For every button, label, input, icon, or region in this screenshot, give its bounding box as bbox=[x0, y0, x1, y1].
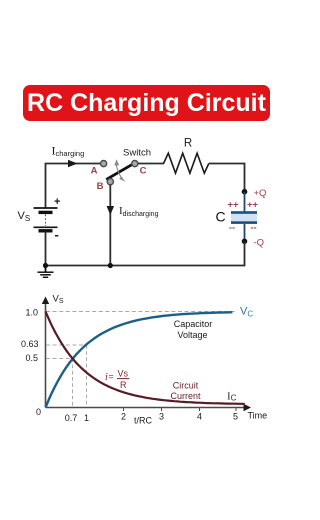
switch contact C bbox=[132, 161, 138, 167]
svg-text:B: B bbox=[97, 181, 104, 192]
wire: resistor to node +Q bbox=[209, 164, 245, 190]
capacitor voltage curve VC bbox=[46, 312, 233, 407]
svg-text:Voltage: Voltage bbox=[177, 330, 207, 340]
switch toggle motion arrow bbox=[114, 159, 125, 181]
svg-text:0.5: 0.5 bbox=[25, 353, 38, 363]
svg-text:1.0: 1.0 bbox=[25, 308, 38, 318]
resistor R bbox=[164, 153, 209, 173]
wire: contact C to resistor R bbox=[138, 163, 164, 165]
ground bbox=[38, 266, 54, 278]
x-axis tick at 2 bbox=[123, 408, 125, 412]
title banner bbox=[23, 85, 270, 121]
capacitor C1 bbox=[231, 192, 257, 242]
svg-text:Capacitor: Capacitor bbox=[174, 319, 213, 329]
graph x-axis bbox=[46, 404, 252, 411]
x-axis tick at 5 bbox=[235, 408, 237, 412]
svg-text:0.63: 0.63 bbox=[21, 339, 39, 349]
svg-text:--: -- bbox=[250, 223, 256, 234]
battery VS bbox=[34, 196, 61, 242]
svg-text:R: R bbox=[120, 380, 127, 390]
svg-text:0.7: 0.7 bbox=[65, 413, 78, 423]
circuit current curve IC bbox=[46, 312, 245, 404]
switch contact A bbox=[101, 161, 107, 167]
svg-text:+: + bbox=[54, 196, 60, 208]
switch contact B bbox=[107, 179, 113, 185]
dashed line at 0.5 bbox=[46, 358, 73, 360]
x-axis tick at 4 bbox=[199, 408, 201, 412]
dashed vertical at 1 bbox=[86, 345, 88, 407]
wire: capacitor to bottom rail bbox=[46, 241, 245, 265]
wire: battery negative to ground node bbox=[45, 232, 47, 266]
svg-text:R: R bbox=[184, 138, 192, 150]
svg-text:--: -- bbox=[229, 223, 235, 234]
svg-text:2: 2 bbox=[121, 412, 126, 422]
svg-text:Vs: Vs bbox=[118, 369, 129, 379]
node +Q junction bbox=[242, 189, 248, 195]
charging current arrow bbox=[68, 160, 78, 168]
svg-text:RC Charging Circuit: RC Charging Circuit bbox=[27, 89, 267, 117]
svg-text:-Q: -Q bbox=[254, 238, 265, 249]
svg-text:A: A bbox=[91, 166, 98, 177]
svg-text:++: ++ bbox=[227, 200, 239, 211]
svg-text:++: ++ bbox=[247, 200, 259, 211]
svg-text:Time: Time bbox=[248, 411, 268, 421]
svg-text:Circuit: Circuit bbox=[173, 381, 199, 391]
svg-text:=: = bbox=[109, 372, 114, 382]
graph y-axis bbox=[42, 297, 49, 408]
wire: switch contact B to bottom rail bbox=[109, 185, 111, 266]
dashed vertical at 0.7 bbox=[72, 359, 74, 408]
discharging current arrow bbox=[107, 206, 115, 215]
junction: B branch to bottom rail bbox=[108, 263, 113, 268]
svg-text:5: 5 bbox=[233, 412, 238, 422]
node -Q junction bbox=[242, 239, 248, 245]
svg-text:-: - bbox=[55, 227, 59, 242]
dashed line at 0.63 bbox=[46, 344, 87, 346]
label i = VS/R bbox=[105, 369, 130, 391]
svg-text:C: C bbox=[216, 209, 226, 225]
svg-text:3: 3 bbox=[159, 412, 164, 422]
switch lever B-C bbox=[106, 162, 136, 179]
dashed line at 1.0 bbox=[46, 311, 236, 313]
svg-text:C: C bbox=[140, 166, 147, 177]
svg-text:Current: Current bbox=[170, 391, 201, 401]
wire: battery positive to switch contact A bbox=[46, 164, 101, 209]
svg-text:0: 0 bbox=[36, 407, 41, 417]
svg-text:4: 4 bbox=[197, 412, 202, 422]
svg-text:1: 1 bbox=[84, 413, 89, 423]
svg-text:+Q: +Q bbox=[254, 188, 267, 199]
junction: ground node bbox=[43, 263, 48, 268]
x-axis tick at 3 bbox=[161, 408, 163, 412]
svg-text:t/RC: t/RC bbox=[134, 416, 153, 426]
svg-text:Switch: Switch bbox=[123, 148, 151, 159]
